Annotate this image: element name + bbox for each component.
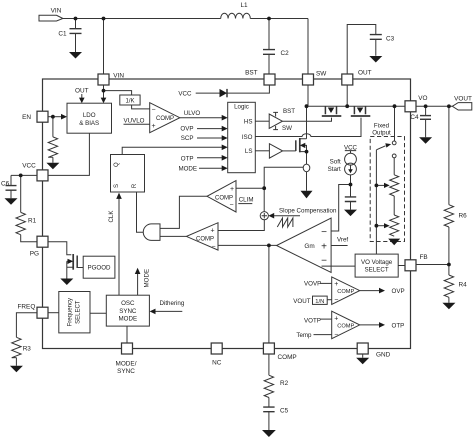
ground C4: [419, 137, 432, 144]
wire PWM output to AND gate: [160, 235, 186, 237]
capacitor C2: [263, 50, 289, 57]
resistor R1: [16, 212, 37, 234]
wire VIN pin into LDO: [103, 85, 105, 99]
arrow ULVO into Logic: [222, 115, 228, 121]
svg-text:MODE/: MODE/: [116, 361, 137, 368]
svg-text:LDO: LDO: [83, 112, 96, 119]
ground R3: [10, 366, 23, 373]
svg-text:Gm: Gm: [304, 243, 314, 250]
wire PG pin to FET drain: [48, 242, 71, 255]
net VCC bootstrap diode feed: [178, 91, 219, 98]
wire EN pulldown resistor branch: [52, 117, 54, 163]
svg-text:VCC: VCC: [178, 91, 192, 98]
svg-text:OVP: OVP: [392, 288, 405, 295]
capacitor C1: [58, 29, 81, 38]
pin PG: [30, 236, 48, 257]
op-amp Gm error amplifier: [277, 218, 332, 272]
svg-text:Logic: Logic: [234, 104, 249, 111]
svg-text:OUT: OUT: [75, 88, 89, 95]
wire R2 to C5: [268, 398, 270, 431]
ground soft start cap: [344, 210, 357, 217]
arrow tap upper: [376, 184, 384, 186]
svg-text:COMP: COMP: [156, 116, 174, 122]
terminal VOUT flag: [452, 95, 472, 110]
pin FB: [405, 254, 428, 271]
arrow OTP: [379, 322, 404, 329]
transistor Q-HS1 pass FET: [322, 106, 342, 116]
wire FREQ pin to Frequency SELECT: [48, 312, 59, 314]
svg-text:VOUT: VOUT: [454, 95, 472, 102]
ground fixed divider: [388, 239, 400, 246]
svg-text:EN: EN: [22, 114, 31, 121]
wire Gm minus bottom to VO select: [322, 265, 356, 267]
svg-text:GND: GND: [376, 352, 391, 359]
wire Logic LS to buffer: [255, 150, 269, 152]
wire SR latch Q to Logic: [122, 147, 222, 154]
svg-text:R2: R2: [280, 380, 289, 387]
capacitor C5: [263, 407, 288, 414]
svg-text:OUT: OUT: [358, 69, 372, 76]
svg-text:COMP: COMP: [196, 237, 214, 243]
wire FB node down to R4: [448, 265, 450, 276]
wire soft start to cap: [350, 175, 352, 210]
op-amp OVP comparator: [332, 277, 360, 305]
buffer HS driver: [269, 108, 295, 132]
wire VIN top rail: [63, 18, 308, 20]
svg-text:R4: R4: [459, 281, 468, 288]
ground C3: [369, 56, 382, 63]
wire soft start to Gm minus top: [331, 185, 350, 232]
block Frequency SELECT: [59, 292, 90, 333]
waveform sawtooth: [277, 218, 293, 227]
wire OTP output: [360, 324, 380, 326]
svg-text:C1: C1: [58, 30, 67, 37]
svg-text:Q: Q: [114, 162, 120, 167]
ground C6: [5, 198, 18, 205]
summing junction slope comp: [260, 212, 268, 220]
resistor R2: [264, 375, 288, 397]
wire current sense to PGND arrow: [306, 172, 308, 191]
node junction dots: [19, 17, 451, 267]
wire Logic HS to buffer: [255, 120, 269, 122]
svg-text:VIN: VIN: [51, 7, 62, 14]
wire Gm output to COMP pin: [218, 245, 277, 343]
svg-text:−: −: [321, 227, 327, 238]
wire OVP output: [360, 290, 380, 292]
svg-text:+: +: [151, 123, 155, 130]
block OSC SYNC MODE: [106, 295, 149, 326]
ground C5: [262, 430, 276, 437]
net Vref: [331, 236, 348, 245]
svg-text:PGOOD: PGOOD: [87, 265, 111, 272]
wire VCC pin left branch: [11, 175, 37, 198]
svg-text:VUVLO: VUVLO: [124, 118, 145, 125]
svg-text:+: +: [334, 281, 338, 288]
ground R4: [442, 303, 455, 310]
svg-text:PG: PG: [30, 250, 39, 257]
resistor EN pulldown: [48, 137, 57, 157]
svg-text:R: R: [132, 183, 138, 188]
svg-text:SW: SW: [316, 70, 327, 77]
resistor divider upper: [390, 158, 399, 196]
arrow OVP: [379, 288, 405, 295]
wire EN pin to LDO: [48, 116, 62, 118]
svg-text:+: +: [321, 242, 327, 253]
switch output select: [376, 141, 396, 158]
ground C1: [69, 52, 82, 59]
svg-text:LS: LS: [245, 148, 253, 155]
wire FREQ pin left to R3: [16, 313, 37, 366]
wire R4 to ground: [448, 297, 450, 303]
wire VIN tap to 1/K: [104, 91, 132, 95]
net VOTP to comparator: [304, 317, 332, 324]
svg-text:C2: C2: [281, 50, 290, 57]
svg-text:Soft: Soft: [330, 159, 341, 166]
capacitor C3: [370, 35, 395, 43]
svg-text:COMP: COMP: [337, 289, 354, 295]
net Slope Compensation arrow: [268, 207, 337, 218]
svg-text:1/K: 1/K: [125, 99, 134, 105]
wire C2 branch to BST: [268, 19, 270, 74]
arrow into LDO from VIN: [101, 98, 107, 104]
wire ISO to FET2 gate: [255, 118, 361, 137]
wire select rail: [375, 150, 377, 254]
wire diode to BST pin: [227, 85, 269, 94]
pin VO: [405, 95, 427, 112]
resistor R6: [444, 205, 467, 227]
block VO Voltage SELECT: [355, 254, 398, 277]
svg-text:OTP: OTP: [181, 155, 194, 162]
svg-text:OTP: OTP: [392, 323, 405, 330]
svg-text:−: −: [321, 255, 327, 266]
wire OUT pin to C3: [347, 25, 376, 74]
block 1/K: [120, 95, 140, 105]
capacitor soft start: [345, 197, 356, 202]
wire VOUT node down to R6: [448, 106, 450, 204]
op-amp PWM comparator: [186, 223, 218, 251]
svg-text:C6: C6: [1, 181, 10, 188]
svg-text:SW: SW: [282, 125, 292, 132]
wire SW pin drop: [307, 19, 309, 74]
pin OUT: [342, 69, 372, 85]
svg-text:C3: C3: [386, 36, 395, 43]
wire Frequency SELECT to OSC: [90, 312, 106, 314]
svg-text:VCC: VCC: [22, 163, 36, 170]
svg-text:OVP: OVP: [180, 126, 193, 133]
gate AND: [143, 224, 160, 241]
net OVP into Logic: [180, 126, 227, 133]
svg-text:FB: FB: [420, 254, 428, 261]
svg-text:ISO: ISO: [242, 134, 253, 141]
svg-text:FREQ: FREQ: [18, 303, 36, 310]
svg-text:C5: C5: [280, 408, 289, 415]
svg-text:R3: R3: [23, 345, 32, 352]
svg-text:Slope Compensation: Slope Compensation: [279, 207, 337, 214]
wire LS buffer to gate: [283, 150, 296, 152]
wire LDO bottom to VCC pin: [48, 133, 89, 175]
net Dithering arrow: [150, 300, 185, 314]
capacitor C4: [410, 106, 431, 137]
pin SW: [303, 70, 328, 85]
svg-text:+: +: [334, 316, 338, 323]
svg-text:MODE: MODE: [143, 269, 150, 288]
net Temp to comparator: [296, 332, 331, 339]
svg-text:ULVO: ULVO: [184, 110, 201, 117]
svg-text:R1: R1: [28, 218, 37, 225]
pin MODE/SYNC: [116, 343, 137, 375]
wire CLK into SR latch S: [108, 193, 122, 296]
svg-text:Output: Output: [372, 130, 391, 137]
svg-text:CLIM: CLIM: [239, 197, 254, 204]
svg-text:VOTP: VOTP: [304, 317, 321, 324]
wire SW rail down to LS drain: [306, 106, 308, 139]
svg-text:COMP: COMP: [278, 354, 297, 361]
flip-flop SR latch: [111, 155, 145, 193]
svg-text:SYNC: SYNC: [119, 308, 137, 315]
svg-text:−: −: [211, 243, 215, 250]
wire SW node rail: [308, 85, 405, 107]
pin EN: [22, 111, 48, 122]
svg-text:R6: R6: [459, 213, 468, 220]
wire AND output to SR latch R: [137, 192, 144, 232]
svg-text:Temp: Temp: [296, 332, 312, 339]
capacitor C6: [1, 181, 17, 191]
wire 1/K to comparator minus: [132, 105, 150, 109]
op-amp U-UVLO comparator: [150, 103, 180, 133]
pin VCC: [22, 163, 48, 181]
arrow tap lower: [376, 225, 384, 227]
current sense element: [303, 164, 310, 172]
op-amp OTP comparator: [332, 311, 360, 339]
svg-text:Frequency: Frequency: [68, 298, 74, 326]
arrow PGND current: [301, 191, 313, 199]
svg-text:COMP: COMP: [337, 324, 354, 330]
wire C1 branch: [75, 19, 77, 53]
svg-text:NC: NC: [212, 359, 222, 366]
svg-text:BST: BST: [283, 108, 295, 115]
svg-text:Start: Start: [328, 166, 341, 173]
svg-text:Vref: Vref: [337, 236, 348, 243]
transistor Q-PGOOD open drain: [67, 254, 83, 279]
svg-text:−: −: [151, 106, 155, 113]
buffer LS driver: [269, 144, 282, 158]
wire current sense tap: [264, 167, 303, 211]
ground PGOOD FET: [60, 279, 73, 286]
ground GND pin: [356, 354, 369, 364]
wire COMP pin down to R2: [268, 354, 270, 375]
svg-text:VIN: VIN: [113, 73, 124, 80]
pin COMP: [263, 343, 296, 361]
svg-text:+: +: [230, 186, 234, 193]
current source Soft Start: [328, 153, 357, 175]
terminal VIN flag: [39, 7, 63, 21]
wire OUT pin to mid node: [346, 85, 348, 107]
net SCP into Logic: [181, 135, 228, 142]
svg-text:−: −: [334, 297, 338, 304]
net arrow OUT into LDO: [75, 88, 89, 104]
resistor R4: [444, 275, 467, 297]
resistor divider lower: [390, 196, 399, 236]
svg-text:COMP: COMP: [215, 195, 233, 201]
block LDO & BIAS: [67, 103, 112, 133]
svg-text:SELECT: SELECT: [365, 267, 389, 274]
pin VIN: [98, 73, 124, 86]
transistor Q-HS2 isolation FET: [351, 106, 371, 116]
diode bootstrap: [220, 89, 228, 97]
svg-text:SYNC: SYNC: [117, 368, 135, 375]
wire R1 branch: [21, 175, 37, 241]
svg-text:MODE: MODE: [119, 315, 138, 322]
wire VIN pin drop: [103, 19, 105, 74]
block 1/N: [293, 296, 331, 305]
pin BST: [245, 69, 275, 85]
resistor R3: [12, 337, 32, 357]
pin GND: [357, 343, 390, 359]
svg-text:L1: L1: [240, 2, 248, 9]
wire summing junction to PWM plus: [218, 220, 264, 231]
block Logic: [228, 102, 256, 172]
net OTP into Logic: [181, 155, 228, 162]
block Fixed Output dashed: [370, 122, 404, 241]
wire VO to VOUT: [416, 105, 452, 107]
net arrow MODE from OSC: [135, 268, 151, 296]
svg-text:VOUT: VOUT: [293, 298, 310, 305]
block PGOOD: [83, 256, 115, 278]
wire HS buffer to FET gates: [282, 118, 331, 122]
wire ULVO comparator to Logic: [180, 110, 222, 118]
svg-text:C4: C4: [410, 114, 419, 121]
op-amp CLIM comparator: [207, 181, 236, 212]
arrow Q into Logic: [222, 145, 228, 151]
svg-text:HS: HS: [244, 119, 253, 126]
svg-text:VO Voltage: VO Voltage: [361, 259, 393, 266]
svg-text:SELECT: SELECT: [76, 300, 82, 324]
wire FB pin to node: [416, 264, 449, 266]
svg-text:S: S: [114, 184, 120, 188]
svg-text:−: −: [229, 202, 233, 209]
net CLIM reference: [238, 197, 253, 204]
svg-text:Fixed: Fixed: [374, 122, 390, 129]
wire CLIM output to AND gate: [160, 196, 207, 228]
wire OSC to MODE/SYNC pin: [126, 326, 128, 343]
net VUVLO to comparator plus: [124, 118, 150, 125]
pin FREQ: [18, 303, 48, 318]
net MODE into Logic: [178, 165, 227, 172]
wire R6 to FB node: [448, 227, 450, 265]
svg-text:VO: VO: [418, 95, 427, 102]
transistor Q-LS low side FET: [296, 138, 307, 152]
ground EN pulldown: [46, 163, 59, 170]
wire VO rail to fixed divider: [394, 106, 396, 141]
svg-text:BST: BST: [245, 69, 258, 76]
wire CLIM comparator plus input: [236, 187, 264, 189]
svg-text:VOVP: VOVP: [304, 280, 321, 287]
svg-text:Dithering: Dithering: [160, 300, 185, 307]
net VOVP to comparator: [304, 280, 332, 287]
svg-text:MODE: MODE: [178, 166, 197, 173]
net VCC soft start: [344, 144, 358, 153]
svg-text:& BIAS: & BIAS: [79, 120, 99, 127]
svg-text:+: +: [210, 227, 214, 234]
wire VO select to FB pin: [398, 265, 405, 267]
svg-text:SCP: SCP: [181, 135, 194, 142]
wire LS source to current sense: [306, 152, 308, 165]
svg-text:1/N: 1/N: [315, 299, 324, 305]
svg-text:−: −: [334, 332, 338, 339]
pin NC: [211, 343, 222, 366]
IC boundary: [43, 79, 411, 349]
svg-text:OSC: OSC: [121, 300, 135, 307]
svg-text:CLK: CLK: [108, 210, 115, 223]
inductor L1: [221, 2, 251, 19]
arrow into LDO from EN: [61, 114, 67, 120]
